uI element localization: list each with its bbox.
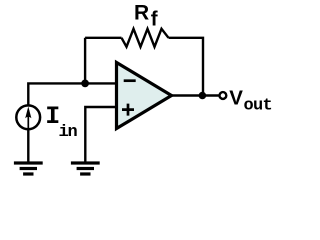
svg-text:out: out [244,96,273,115]
output node junction dot [199,92,207,100]
op-amp inverting input marker (−) [124,79,136,82]
ground (under non-inverting input) [71,161,100,175]
ground (under current source) [14,161,43,175]
label V_out [229,86,272,115]
wire: non-inverting input left and down to ground [85,107,116,162]
svg-text:in: in [59,123,78,142]
svg-text:V: V [229,86,243,109]
wire: feedback vertical from node A up to top rail [84,38,86,84]
wire: resistor right lead and vertical down to output node [169,38,204,96]
op-amp non-inverting input marker (+) [122,104,134,116]
op-amp U1 (triangle body) [117,63,172,129]
output terminal (open circle) [220,92,227,99]
svg-text:f: f [151,8,158,31]
label R_f [134,1,158,30]
wire: top rail left lead into resistor [85,37,121,39]
wire: current source bottom to ground [27,129,29,162]
wire: current source top up and right to op-amp inverting input [28,83,116,105]
wire: op-amp output to terminal [172,94,220,96]
resistor R_f (zigzag body) [122,29,169,47]
label I_in [45,102,77,142]
current source I1 (circle with up arrow) [16,105,40,129]
node A junction dot (inverting input / feedback) [81,80,89,88]
svg-text:R: R [134,1,149,24]
